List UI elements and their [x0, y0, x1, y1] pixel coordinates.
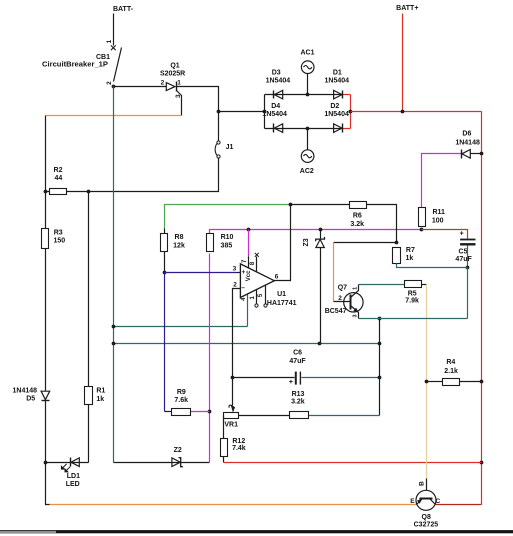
- wire R5 right stub: [422, 284, 427, 286]
- Q8 emitter arrow: [417, 499, 422, 504]
- svg-text:Q1: Q1: [170, 63, 179, 70]
- wire magenta R9 stub: [191, 411, 210, 413]
- svg-text:1k: 1k: [406, 255, 414, 262]
- bridge left edge wire: [264, 95, 266, 129]
- junction BATT+ tap: [401, 110, 405, 114]
- svg-text:1: 1: [177, 80, 181, 87]
- capacitor C6 plates: [296, 372, 301, 385]
- svg-text:BATT+: BATT+: [396, 5, 418, 12]
- LED LD1 cathode bar: [70, 458, 72, 467]
- junction R11 bottom on magenta: [420, 228, 424, 232]
- wire Z3 top stub: [320, 230, 322, 240]
- zener Z2 triangle: [172, 458, 180, 467]
- zener Z2 bar: [179, 458, 183, 467]
- junction AC1 on top rail: [306, 93, 310, 97]
- junction SCR column to bridge: [217, 110, 221, 114]
- svg-text:+: +: [289, 379, 293, 386]
- svg-text:1: 1: [353, 287, 359, 290]
- svg-text:R12: R12: [232, 438, 245, 445]
- wire BATT- to CB1 pin 1: [113, 14, 115, 46]
- wire emitter drop column: [379, 319, 381, 416]
- svg-text:C5: C5: [459, 249, 468, 256]
- svg-text:HA17741: HA17741: [267, 300, 297, 307]
- diode D3 triangle: [274, 90, 282, 99]
- svg-text:D2: D2: [330, 103, 339, 110]
- wire teal branch to Z3 and Q7: [114, 343, 380, 345]
- svg-text:CB1: CB1: [96, 54, 110, 61]
- svg-text:1N5404: 1N5404: [266, 78, 291, 85]
- wire Z2 row: [114, 462, 210, 464]
- svg-text:1k: 1k: [96, 396, 104, 403]
- Q8 base bar: [420, 498, 433, 500]
- diode D2 triangle: [334, 124, 342, 133]
- wire R4 right stub: [460, 381, 482, 383]
- circuit breaker CB1 blade: [114, 48, 122, 82]
- Q7 emitter arrow: [354, 308, 358, 312]
- svg-text:S2025R: S2025R: [160, 71, 185, 78]
- resistor R7 body: [393, 248, 401, 264]
- svg-text:R5: R5: [408, 290, 417, 297]
- svg-text:C32725: C32725: [414, 522, 439, 529]
- wire R7 top row: [334, 242, 397, 244]
- LED LD1 emission arrows: [61, 464, 70, 472]
- potentiometer VR1 body: [224, 413, 239, 419]
- svg-text:1N5404: 1N5404: [325, 78, 350, 85]
- op-amp pin 7 lead: [248, 257, 250, 269]
- junction op-amp output on green row: [289, 203, 293, 207]
- svg-text:R3: R3: [54, 229, 63, 236]
- svg-text:Q7: Q7: [338, 285, 347, 292]
- wire Q1 cathode to J1: [177, 87, 219, 142]
- SCR Q1 triangle: [166, 83, 175, 91]
- connector J1 bracket: [215, 143, 217, 156]
- wire LED row: [46, 462, 89, 464]
- svg-text:3.2k: 3.2k: [291, 399, 305, 406]
- zener Z3 bar: [316, 237, 325, 241]
- svg-text:R7: R7: [406, 247, 415, 254]
- wire magenta drop to op-amp pin 7: [248, 230, 250, 257]
- Q8 collector lead: [430, 499, 436, 505]
- diode D1 cathode bar: [342, 91, 344, 99]
- junction Z3 bottom on teal: [318, 342, 322, 346]
- wire C5 bottom: [467, 246, 469, 268]
- pin-8 x marker U1: [255, 253, 259, 257]
- Q7 emitter lead: [351, 306, 359, 319]
- svg-text:1N5404: 1N5404: [324, 111, 349, 118]
- bridge top rail red segment: [343, 94, 351, 96]
- op-amp U1 triangle: [240, 264, 274, 298]
- svg-text:3: 3: [233, 265, 237, 272]
- junction C6 left on pin2 column: [231, 376, 235, 380]
- svg-text:R6: R6: [353, 213, 362, 220]
- window bottom border: [0, 530, 513, 533]
- wire R2 node down through R3: [45, 192, 47, 391]
- Q7 base bar: [350, 295, 352, 310]
- resistor R9 body: [172, 409, 191, 416]
- svg-text:BATT-: BATT-: [113, 6, 134, 13]
- SCR Q1 cathode bar: [176, 82, 178, 92]
- wire op-amp output up to green row: [275, 205, 291, 281]
- diode D5 cathode bar: [42, 400, 50, 402]
- wire gate corner down to R2 node: [45, 116, 47, 192]
- wire C6 left: [233, 377, 295, 379]
- svg-text:12k: 12k: [173, 242, 185, 249]
- wire AC1 to top rail: [307, 74, 309, 95]
- connector J1 pin 2: [217, 155, 220, 158]
- op-amp pin 5 lead: [265, 286, 267, 305]
- svg-text:2: 2: [161, 80, 165, 87]
- svg-text:+: +: [460, 231, 464, 238]
- wire CB1 to Q1 anode: [114, 86, 167, 88]
- diode D4 cathode bar: [273, 124, 275, 133]
- wire green output net: [165, 205, 291, 229]
- svg-text:C: C: [436, 498, 441, 505]
- wire Q8 collector to red rail: [436, 504, 482, 506]
- svg-text:1N5404: 1N5404: [262, 111, 287, 118]
- pin-1 x marker CB1: [111, 45, 116, 50]
- svg-text:4: 4: [241, 297, 247, 301]
- diode D2 cathode bar: [342, 124, 344, 133]
- svg-text:R1: R1: [96, 388, 105, 395]
- op-amp pin 8 lead: [256, 257, 258, 273]
- wire Z3 bottom: [320, 248, 322, 344]
- bridge bottom rail red segment: [343, 128, 351, 130]
- junction D5 LED node: [44, 461, 48, 465]
- resistor R5 body: [405, 281, 422, 288]
- svg-text:U1: U1: [277, 291, 286, 298]
- resistor R3 body: [42, 229, 49, 249]
- junction emitter drop on teal: [378, 342, 382, 346]
- resistor R13 body: [290, 412, 309, 419]
- svg-text:B: B: [418, 481, 425, 486]
- svg-text:2.1k: 2.1k: [444, 368, 458, 375]
- svg-text:AC1: AC1: [300, 49, 314, 56]
- resistor R11 body: [419, 208, 426, 227]
- VR1 wiper arrow: [229, 405, 235, 412]
- bridge right edge red wire: [350, 95, 352, 129]
- junction bridge left mid: [263, 110, 267, 114]
- SCR Q1 gate lead: [177, 91, 182, 116]
- wire magenta R10 bottom vertical: [209, 254, 211, 463]
- op-amp pin 1 open end: [255, 304, 258, 307]
- resistor R4 body: [443, 379, 460, 386]
- wire output row to R6: [291, 204, 350, 206]
- svg-text:150: 150: [53, 238, 65, 245]
- junction CB1 pin 2: [112, 85, 116, 89]
- wire R8 top stub: [164, 229, 166, 234]
- wire op-amp pin 4 drop: [247, 294, 249, 327]
- svg-text:2: 2: [233, 281, 237, 288]
- junction R9 right on magenta: [208, 410, 212, 414]
- zener Z3 triangle: [316, 239, 324, 247]
- wire brown R11 to C5: [422, 230, 468, 239]
- wire R8 bottom stub: [164, 252, 166, 273]
- svg-text:3.2k: 3.2k: [350, 221, 364, 228]
- svg-text:1N4148: 1N4148: [13, 387, 38, 394]
- svg-text:Q8: Q8: [422, 514, 431, 521]
- wire magenta R10 top corner: [210, 230, 422, 234]
- wire tan R5 down to Q8 base: [426, 285, 428, 479]
- wire R4 left stub: [427, 381, 443, 383]
- resistor R6 body: [350, 202, 367, 209]
- resistor R1 body: [85, 387, 93, 405]
- wire BATT+ drop: [402, 14, 404, 112]
- svg-text:7.4k: 7.4k: [232, 445, 246, 452]
- svg-text:CircuitBreaker_1P: CircuitBreaker_1P: [42, 61, 108, 68]
- svg-text:Z3: Z3: [303, 238, 310, 246]
- wire AC2 to bottom rail: [307, 129, 309, 150]
- svg-text:BC547: BC547: [325, 308, 347, 315]
- bridge top rail wire: [265, 94, 343, 96]
- transistor Q7 body: [344, 293, 363, 312]
- AC source AC1: [301, 61, 314, 74]
- junction R7 top: [395, 241, 399, 245]
- Q7 base wire: [334, 301, 351, 303]
- junction R4 left on tan column: [425, 380, 429, 384]
- svg-text:R2: R2: [54, 167, 63, 174]
- wire R7 bottom to C5 node: [397, 264, 468, 268]
- wire C6 right: [302, 377, 380, 379]
- wire R13 right corner: [309, 415, 380, 417]
- svg-text:+: +: [242, 269, 246, 276]
- svg-text:385: 385: [221, 242, 233, 249]
- svg-text:LED: LED: [66, 481, 80, 488]
- Q8 base stub: [426, 479, 428, 499]
- resistor R12 body: [221, 439, 228, 457]
- wire J1 to R2 row: [46, 158, 219, 192]
- LED LD1 triangle: [71, 458, 79, 467]
- bridge bottom rail wire: [265, 128, 343, 130]
- diode D1 triangle: [334, 90, 342, 99]
- svg-text:C6: C6: [293, 350, 302, 357]
- svg-text:2: 2: [106, 81, 113, 85]
- svg-text:AC2: AC2: [300, 168, 314, 175]
- connector J1 pin 1: [217, 141, 220, 144]
- wire teal main vertical: [113, 87, 115, 463]
- svg-text:7.6k: 7.6k: [174, 397, 188, 404]
- svg-text:D5: D5: [26, 396, 35, 403]
- svg-text:Z2: Z2: [174, 447, 182, 454]
- wire op-amp pin 2 down to VR1 wiper: [233, 289, 241, 406]
- svg-text:7.9k: 7.9k: [405, 298, 419, 305]
- svg-text:R13: R13: [292, 391, 305, 398]
- junction R2 left node: [44, 190, 48, 194]
- junction teal branch 1: [112, 325, 116, 329]
- wire navy to op-amp pin 3: [165, 272, 237, 274]
- wire Q7 collector to R5: [359, 284, 405, 286]
- diode D4 triangle: [274, 124, 282, 133]
- wire C5 node down to emitter row: [467, 268, 469, 319]
- svg-text:E: E: [410, 498, 415, 505]
- junction teal branch 2: [112, 342, 116, 346]
- svg-text:R11: R11: [432, 209, 445, 216]
- capacitor C5 plates: [460, 240, 475, 245]
- junction Z3 top on magenta: [319, 228, 323, 232]
- transistor Q8 body: [416, 490, 436, 510]
- svg-text:–: –: [241, 285, 245, 292]
- svg-text:R10: R10: [221, 234, 234, 241]
- svg-text:1: 1: [106, 39, 113, 43]
- Q8 emitter lead: [417, 499, 423, 505]
- svg-text:D1: D1: [333, 70, 342, 77]
- svg-text:47uF: 47uF: [289, 358, 306, 365]
- svg-text:1N4148: 1N4148: [455, 139, 480, 146]
- wire teal branch to op-amp pin 4: [114, 326, 248, 328]
- resistor R10 body: [207, 234, 214, 252]
- wire Q7 emitter row: [359, 318, 468, 320]
- junction bridge right mid: [349, 110, 353, 114]
- op-amp pin 1 lead: [256, 290, 258, 305]
- wire orange drop to Q7 base: [333, 243, 335, 302]
- svg-text:3: 3: [353, 314, 359, 317]
- svg-text:3: 3: [175, 94, 182, 98]
- svg-text:R4: R4: [446, 359, 455, 366]
- junction R2 right node R1 branch: [87, 190, 91, 194]
- wire magenta R11 to D6: [422, 154, 462, 208]
- svg-text:44: 44: [55, 175, 63, 182]
- svg-text:D3: D3: [272, 70, 281, 77]
- wire VR1 to R13: [239, 415, 290, 417]
- junction emitter drop top: [378, 317, 382, 321]
- svg-text:8: 8: [250, 261, 256, 265]
- wire D5 to LED node: [45, 401, 47, 463]
- svg-text:2: 2: [338, 295, 342, 302]
- svg-text:D4: D4: [271, 103, 280, 110]
- wire R2 right node down to R1: [88, 192, 90, 463]
- diode D6 triangle: [462, 150, 470, 159]
- wire pin 3 stub: [237, 272, 241, 274]
- AC source AC2: [301, 150, 314, 163]
- junction AC2 on bottom rail: [306, 127, 310, 131]
- diode D3 cathode bar: [273, 91, 275, 99]
- svg-text:D6: D6: [462, 131, 471, 138]
- junction R4 right on red rail: [480, 380, 484, 384]
- wire to bridge input: [219, 111, 265, 113]
- wire R12 bottom stub: [223, 457, 225, 463]
- junction C6 right node: [378, 376, 382, 380]
- svg-text:6: 6: [275, 274, 279, 281]
- svg-text:1: 1: [250, 295, 256, 299]
- svg-text:R9: R9: [177, 389, 186, 396]
- wire red R12 to BATT+ rail: [224, 462, 482, 464]
- svg-text:Vcc: Vcc: [246, 270, 252, 281]
- wire VR1 left to R12: [223, 416, 225, 439]
- svg-text:100: 100: [432, 218, 444, 225]
- diode D6 cathode bar: [461, 150, 463, 159]
- resistor R2 body: [50, 189, 67, 195]
- wire R6 right down to R7 top: [367, 205, 397, 243]
- Q7 collector lead: [351, 285, 359, 298]
- wire bottom orange emitter net: [50, 504, 417, 506]
- svg-text:5: 5: [258, 293, 264, 297]
- svg-text:47uF: 47uF: [455, 256, 472, 263]
- wire right red rail vertical: [481, 112, 483, 505]
- svg-text:7: 7: [242, 259, 248, 263]
- wire D6 anode stub: [471, 153, 482, 155]
- svg-text:R8: R8: [175, 234, 184, 241]
- svg-text:J1: J1: [226, 144, 234, 151]
- svg-text:LD1: LD1: [67, 473, 80, 480]
- diode D5 triangle: [41, 391, 50, 400]
- wire navy down to R9: [164, 273, 166, 412]
- wire orange gate net: [46, 115, 182, 117]
- junction R8 bottom navy node: [163, 271, 167, 275]
- junction R12 red wire on red rail: [480, 461, 484, 465]
- junction pin7 tap on magenta: [247, 228, 251, 232]
- op-amp pin 5 open end: [264, 304, 267, 307]
- resistor R8 body: [161, 234, 168, 252]
- wire R9 left corner: [165, 411, 172, 413]
- wire bridge to right red rail: [351, 111, 482, 113]
- svg-text:VR1: VR1: [224, 421, 238, 428]
- junction C5 bottom node: [466, 266, 470, 270]
- wire LED node down to bottom row: [46, 463, 50, 505]
- junction D6 anode on red rail: [480, 152, 484, 156]
